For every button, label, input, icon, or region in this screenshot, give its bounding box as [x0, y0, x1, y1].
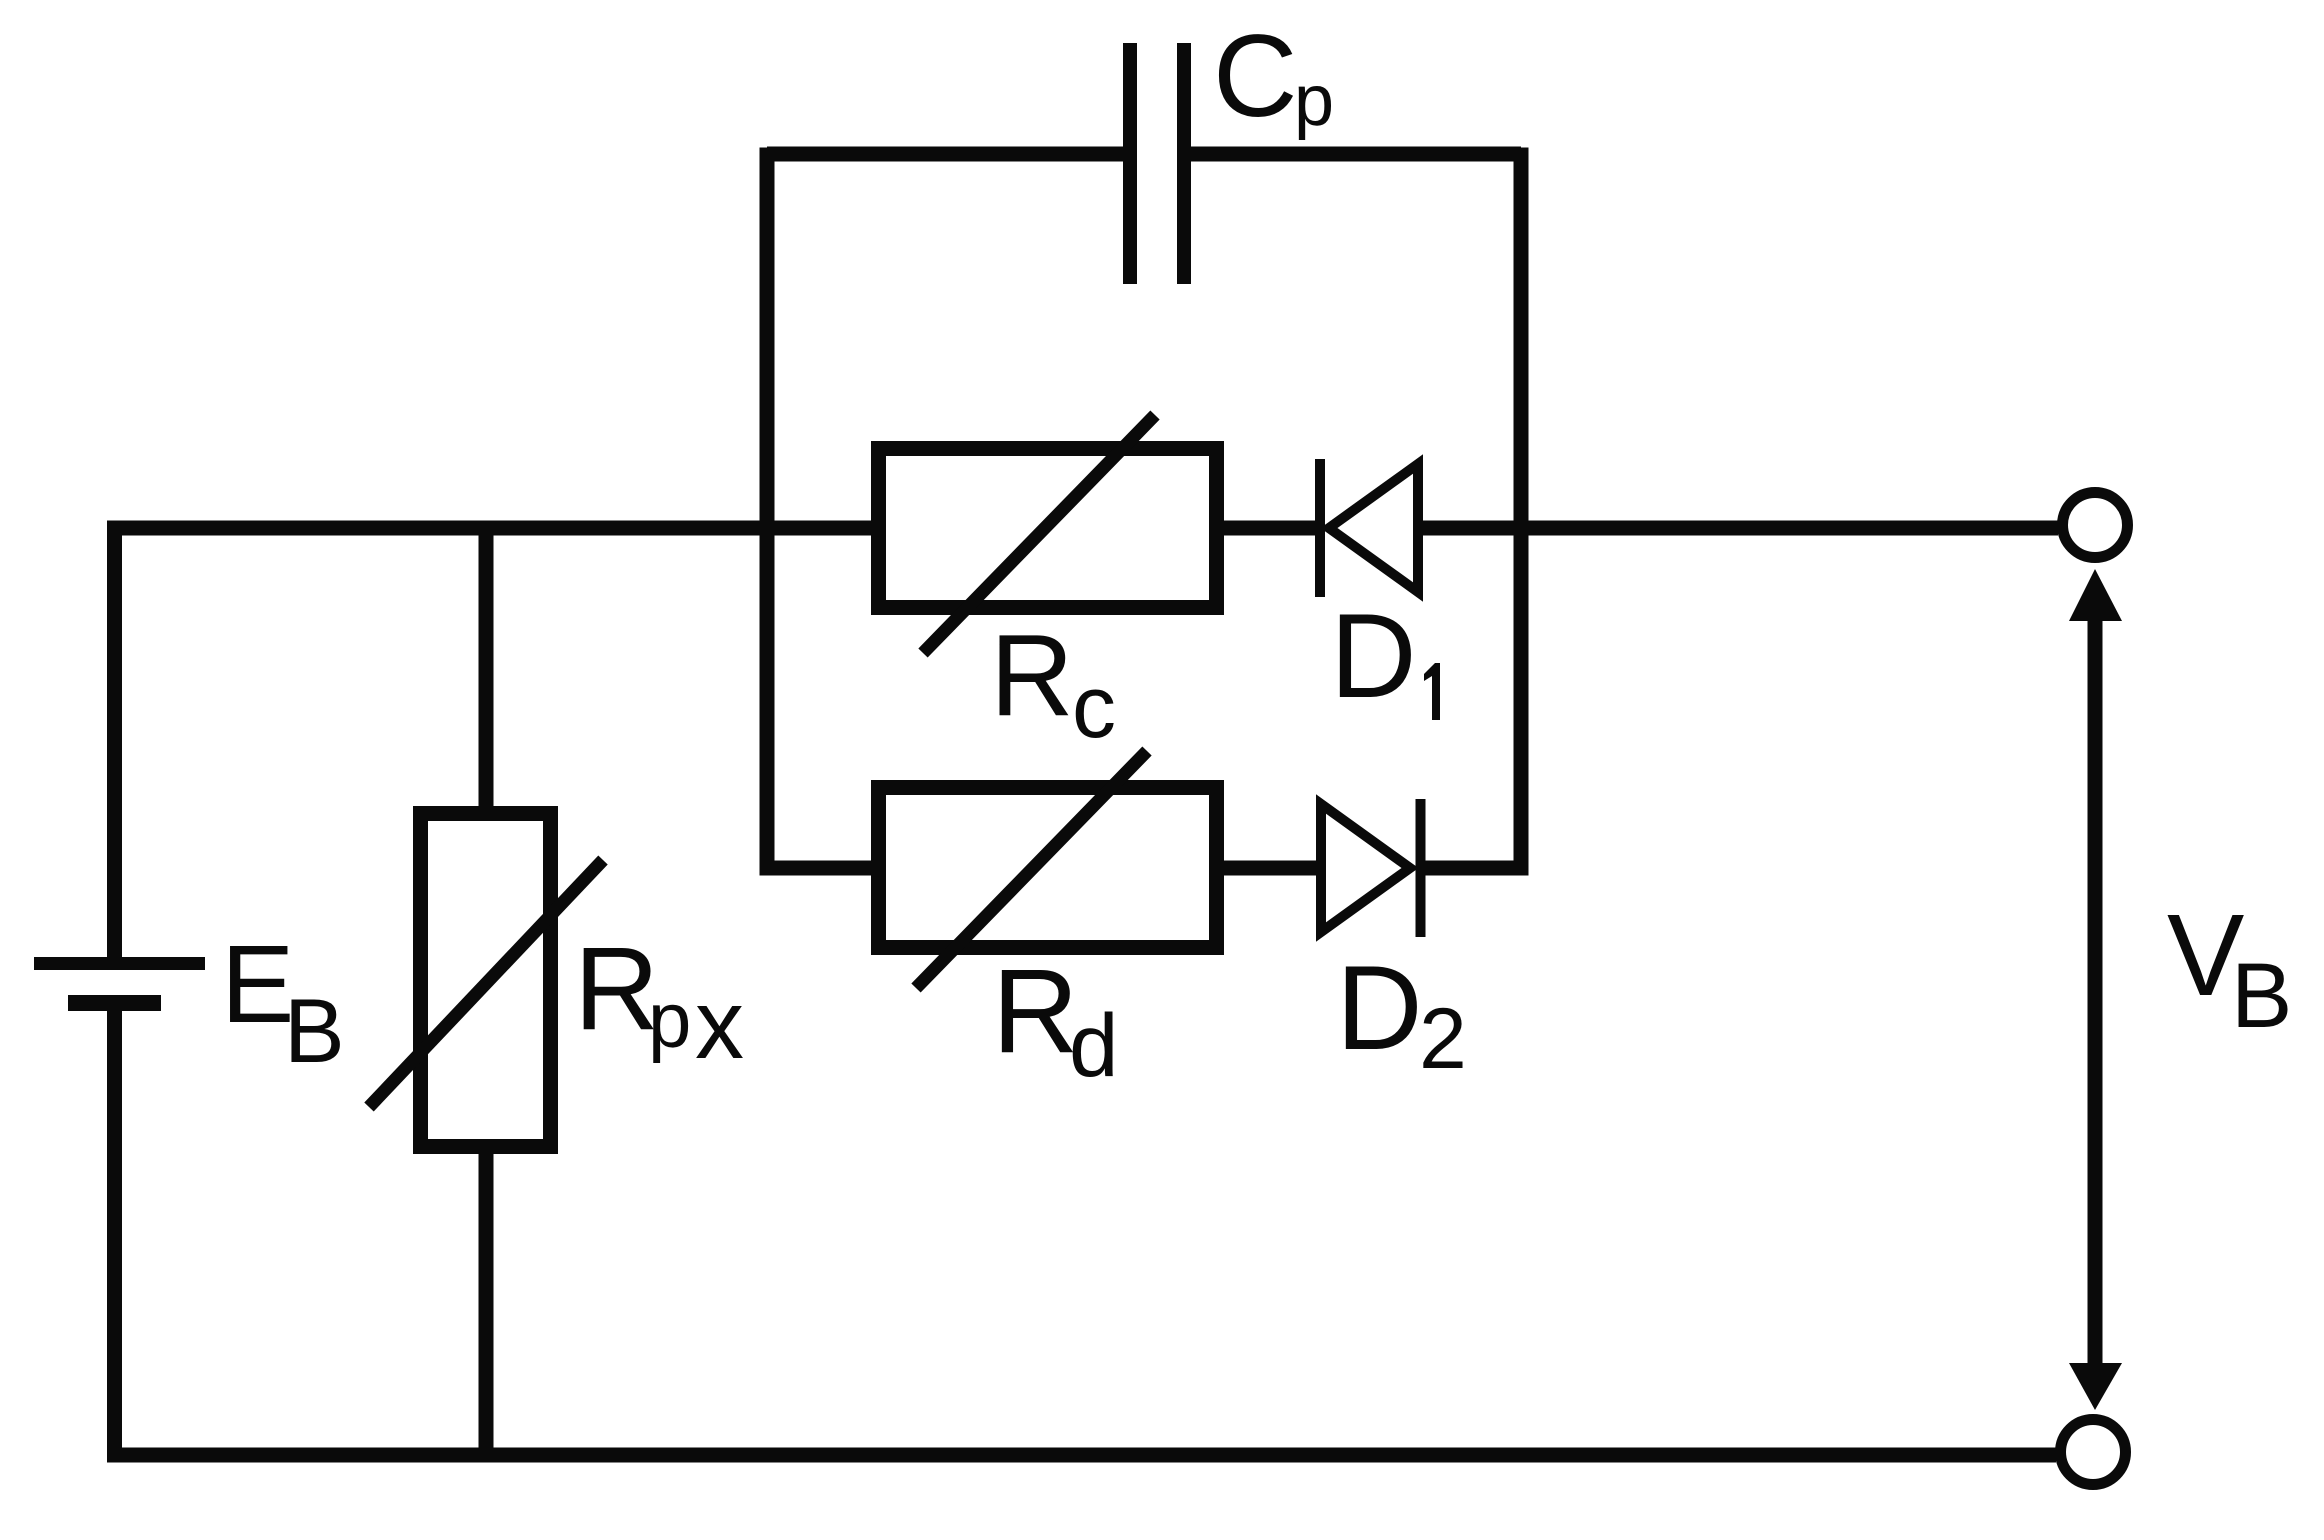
variable resistor Rpx arrow (diagonal): [369, 860, 603, 1107]
svg-text:B: B: [2231, 945, 2292, 1047]
variable resistor Rpx body: [421, 814, 551, 1147]
terminal node bottom right: [2061, 1420, 2126, 1485]
diode D1 triangle (pointing left): [1329, 464, 1418, 592]
wire left vertical lower (battery to bottom): [107, 1011, 122, 1462]
svg-text:p: p: [1294, 61, 1334, 141]
wire lower branch right (D2 to corner): [1425, 861, 1528, 876]
VB arrowhead down: [2069, 1363, 2122, 1410]
capacitor Cp right plate: [1177, 43, 1191, 284]
svg-text:D: D: [1336, 941, 1423, 1075]
svg-text:d: d: [1069, 995, 1119, 1095]
wire capacitor branch right: [1191, 147, 1521, 162]
wire main horizontal mid segment (Rc to D1): [1216, 521, 1320, 536]
diode D1 cathode bar: [1315, 459, 1325, 597]
battery EB positive plate (long): [34, 957, 205, 970]
svg-text:R: R: [992, 944, 1079, 1078]
wire main horizontal left segment: [107, 521, 878, 536]
wire inner loop right vertical: [1514, 148, 1529, 876]
VB measurement arrow shaft: [2088, 615, 2103, 1369]
svg-text:R: R: [990, 610, 1074, 740]
wire bottom horizontal: [107, 1448, 2056, 1463]
variable resistor Rd body: [879, 788, 1217, 948]
wire capacitor branch left: [767, 147, 1123, 162]
wire lower branch left (to Rd): [767, 861, 878, 876]
svg-text:C: C: [1213, 10, 1298, 141]
capacitor Cp left plate: [1123, 43, 1137, 284]
battery EB negative plate (short): [68, 995, 161, 1011]
svg-text:R: R: [574, 923, 659, 1055]
svg-text:D: D: [1330, 589, 1417, 723]
variable resistor Rd arrow (diagonal): [916, 751, 1147, 988]
svg-text:c: c: [1072, 657, 1116, 756]
svg-text:B: B: [284, 981, 345, 1082]
variable resistor Rc arrow (diagonal): [923, 415, 1155, 653]
VB arrowhead up: [2069, 569, 2122, 621]
wire left vertical upper (to battery): [107, 521, 122, 959]
wire inner loop left vertical: [760, 148, 775, 876]
wire Rpx branch lower vertical: [479, 1147, 494, 1462]
wire Rpx branch upper vertical: [479, 521, 494, 814]
svg-text:2: 2: [1419, 991, 1467, 1087]
diode D2 triangle (pointing right): [1321, 804, 1410, 932]
svg-text:p: p: [648, 976, 691, 1064]
svg-text:x: x: [695, 969, 744, 1079]
terminal node top right: [2063, 493, 2128, 558]
diode D2 cathode bar: [1416, 799, 1426, 937]
variable resistor Rc body: [879, 449, 1217, 608]
wire main horizontal right segment (D1 to terminal): [1418, 521, 2058, 536]
wire lower branch mid (Rd to D2): [1216, 861, 1321, 876]
